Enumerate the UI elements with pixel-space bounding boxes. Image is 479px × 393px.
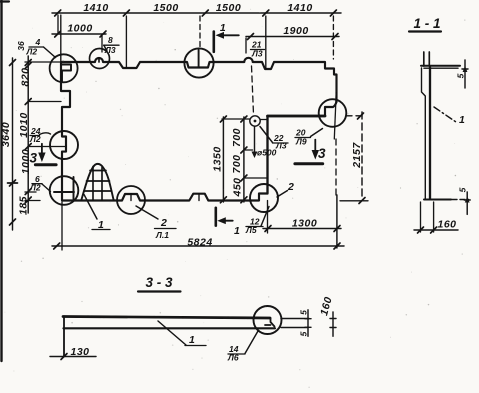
section 3-3 label 1: [158, 321, 206, 346]
svg-text:5: 5: [458, 187, 468, 192]
section 1-1 title: [409, 16, 441, 32]
svg-text:1000: 1000: [20, 149, 32, 174]
detail circle C6 bottom rib: [117, 186, 145, 214]
section 3-3 dim 130: [50, 346, 96, 360]
svg-text:5: 5: [456, 73, 466, 78]
dim 1000 top: [52, 23, 106, 53]
rib tick bottom second: [198, 194, 200, 201]
svg-text:1500: 1500: [216, 2, 241, 14]
section 3-3 dim 160: [318, 295, 336, 336]
notch thick inner edge: [268, 116, 326, 194]
label 8/L3: [104, 35, 119, 55]
detail circle C4 left edge middle: [50, 131, 78, 159]
section 3-3 left leg: [63, 317, 65, 357]
dim 1410 top right: [287, 2, 312, 14]
svg-text:Л6: Л6: [227, 353, 239, 363]
section 3-3 dim 5 top: [299, 310, 312, 337]
anchor circle C9 with dot: [250, 116, 260, 126]
panel outline: [61, 58, 337, 201]
detail circle C8 notch top corner: [319, 93, 347, 139]
overall dim 3640: [0, 58, 18, 230]
interior dim 1350: [212, 116, 268, 203]
svg-text:1350: 1350: [212, 146, 224, 171]
dim 700 upper: [231, 128, 243, 147]
dim 700 lower: [231, 154, 243, 173]
detail circle C1 top-left corner: [50, 54, 78, 82]
top extension lines: [58, 15, 333, 68]
svg-text:5: 5: [299, 331, 309, 336]
svg-text:2: 2: [287, 181, 294, 193]
svg-text:1300: 1300: [292, 218, 317, 230]
svg-text:8: 8: [108, 35, 113, 45]
detail circle C2 around dome 1: [90, 49, 110, 69]
svg-text:130: 130: [70, 346, 89, 358]
section mark 1 bottom: [216, 208, 241, 237]
dim 1000 left: [20, 149, 32, 174]
svg-text:Л.1: Л.1: [155, 230, 169, 240]
svg-text:1: 1: [189, 334, 195, 346]
dim 1300: [263, 201, 341, 234]
svg-text:36: 36: [16, 41, 26, 51]
section 1-1 channel web: [422, 52, 431, 199]
right edge extension line: [335, 139, 338, 248]
svg-text:Л5: Л5: [245, 225, 257, 235]
dim 1500 top second: [216, 2, 241, 14]
svg-text:Л2: Л2: [26, 47, 38, 57]
svg-text:1000: 1000: [67, 23, 92, 35]
svg-text:2157: 2157: [351, 142, 363, 169]
svg-text:3640: 3640: [0, 122, 12, 147]
section 1-1 top flange: [421, 66, 460, 68]
dim 5824 bottom: [52, 202, 344, 250]
dim 820 left: [20, 67, 32, 86]
section 3-3 plate: [63, 317, 275, 329]
section 1-1 leader 1: [434, 107, 465, 126]
svg-text:1 - 1: 1 - 1: [413, 16, 440, 31]
dim 1010 left: [18, 112, 30, 137]
svg-text:1500: 1500: [153, 2, 178, 14]
label 12/L5: [245, 207, 269, 236]
left dimension chain: [25, 56, 31, 213]
svg-text:1: 1: [459, 114, 465, 126]
svg-text:Л2: Л2: [29, 183, 41, 193]
label 2 right: [277, 181, 294, 197]
label 20/L9: [295, 128, 323, 147]
detail circle C3 top middle rib: [184, 48, 213, 77]
svg-text:820: 820: [20, 67, 32, 86]
dim 185 left: [18, 196, 30, 215]
section mark 3 right: [295, 140, 326, 164]
label 22/L3: [260, 127, 288, 151]
section 1-1 dim 5 bottom: [458, 187, 471, 214]
label 6/L2: [29, 174, 51, 193]
svg-text:700: 700: [231, 154, 243, 173]
section 3-3 label 14/L6: [227, 331, 258, 363]
svg-text:Л9: Л9: [295, 137, 307, 147]
svg-text:5: 5: [299, 310, 309, 315]
section 3-3 extension lines right: [281, 319, 309, 328]
section mark 3 left: [30, 144, 57, 166]
svg-text:700: 700: [231, 128, 243, 147]
dashed centerline from dome 2: [252, 66, 254, 114]
hole callout o500: [252, 127, 277, 158]
svg-text:3: 3: [318, 146, 326, 161]
svg-text:3 - 3: 3 - 3: [145, 275, 173, 290]
label 21/L3: [251, 40, 265, 59]
section 3-3 title: [138, 275, 181, 292]
svg-text:5824: 5824: [187, 236, 212, 248]
dim 450: [231, 177, 243, 197]
lifting loop tick in dome 1: [98, 59, 100, 63]
svg-text:1: 1: [234, 225, 240, 237]
svg-text:185: 185: [18, 196, 30, 215]
svg-text:450: 450: [231, 177, 243, 197]
interior chain 700 700 450: [241, 116, 267, 203]
dim 1500 top: [153, 2, 178, 14]
svg-text:2: 2: [160, 217, 167, 229]
detail circle C7 notch bottom corner: [250, 184, 278, 212]
section 1-1 dim 160: [414, 202, 458, 233]
label 4/L2: [26, 37, 56, 58]
dim 1410 top left: [83, 2, 108, 14]
svg-text:160: 160: [437, 219, 456, 231]
label 1 bottom: [84, 195, 110, 232]
label 24/L5: [29, 126, 51, 144]
left extension lines: [25, 62, 66, 201]
dim 1900 top right: [246, 25, 339, 53]
svg-text:1: 1: [220, 22, 226, 34]
scan border left edge: [0, 0, 9, 361]
label 2 bottom with L.1: [136, 206, 176, 240]
dim 2157: [340, 112, 368, 204]
svg-text:1010: 1010: [18, 112, 30, 137]
svg-text:ø500: ø500: [257, 148, 277, 158]
detail circle C5 left edge lower: [50, 176, 79, 205]
svg-text:1410: 1410: [287, 2, 312, 14]
svg-text:Л3: Л3: [251, 49, 263, 59]
section 3-3 detail circle C10: [254, 306, 282, 334]
corner step detail in circle C1: [61, 65, 71, 82]
section 1-1 bottom flange: [424, 199, 469, 201]
hatched gusset triangle: [82, 164, 114, 200]
section 1-1 dim 5 top: [456, 60, 469, 88]
svg-text:4: 4: [35, 37, 41, 47]
svg-text:1410: 1410: [83, 2, 108, 14]
svg-text:1900: 1900: [283, 25, 308, 37]
dim 36 left: [16, 41, 26, 51]
svg-text:Л2: Л2: [29, 134, 41, 144]
section mark 1 top: [214, 22, 239, 52]
svg-text:Л3: Л3: [275, 141, 287, 151]
svg-text:160: 160: [318, 295, 335, 316]
top dimension chain line: [52, 10, 341, 16]
